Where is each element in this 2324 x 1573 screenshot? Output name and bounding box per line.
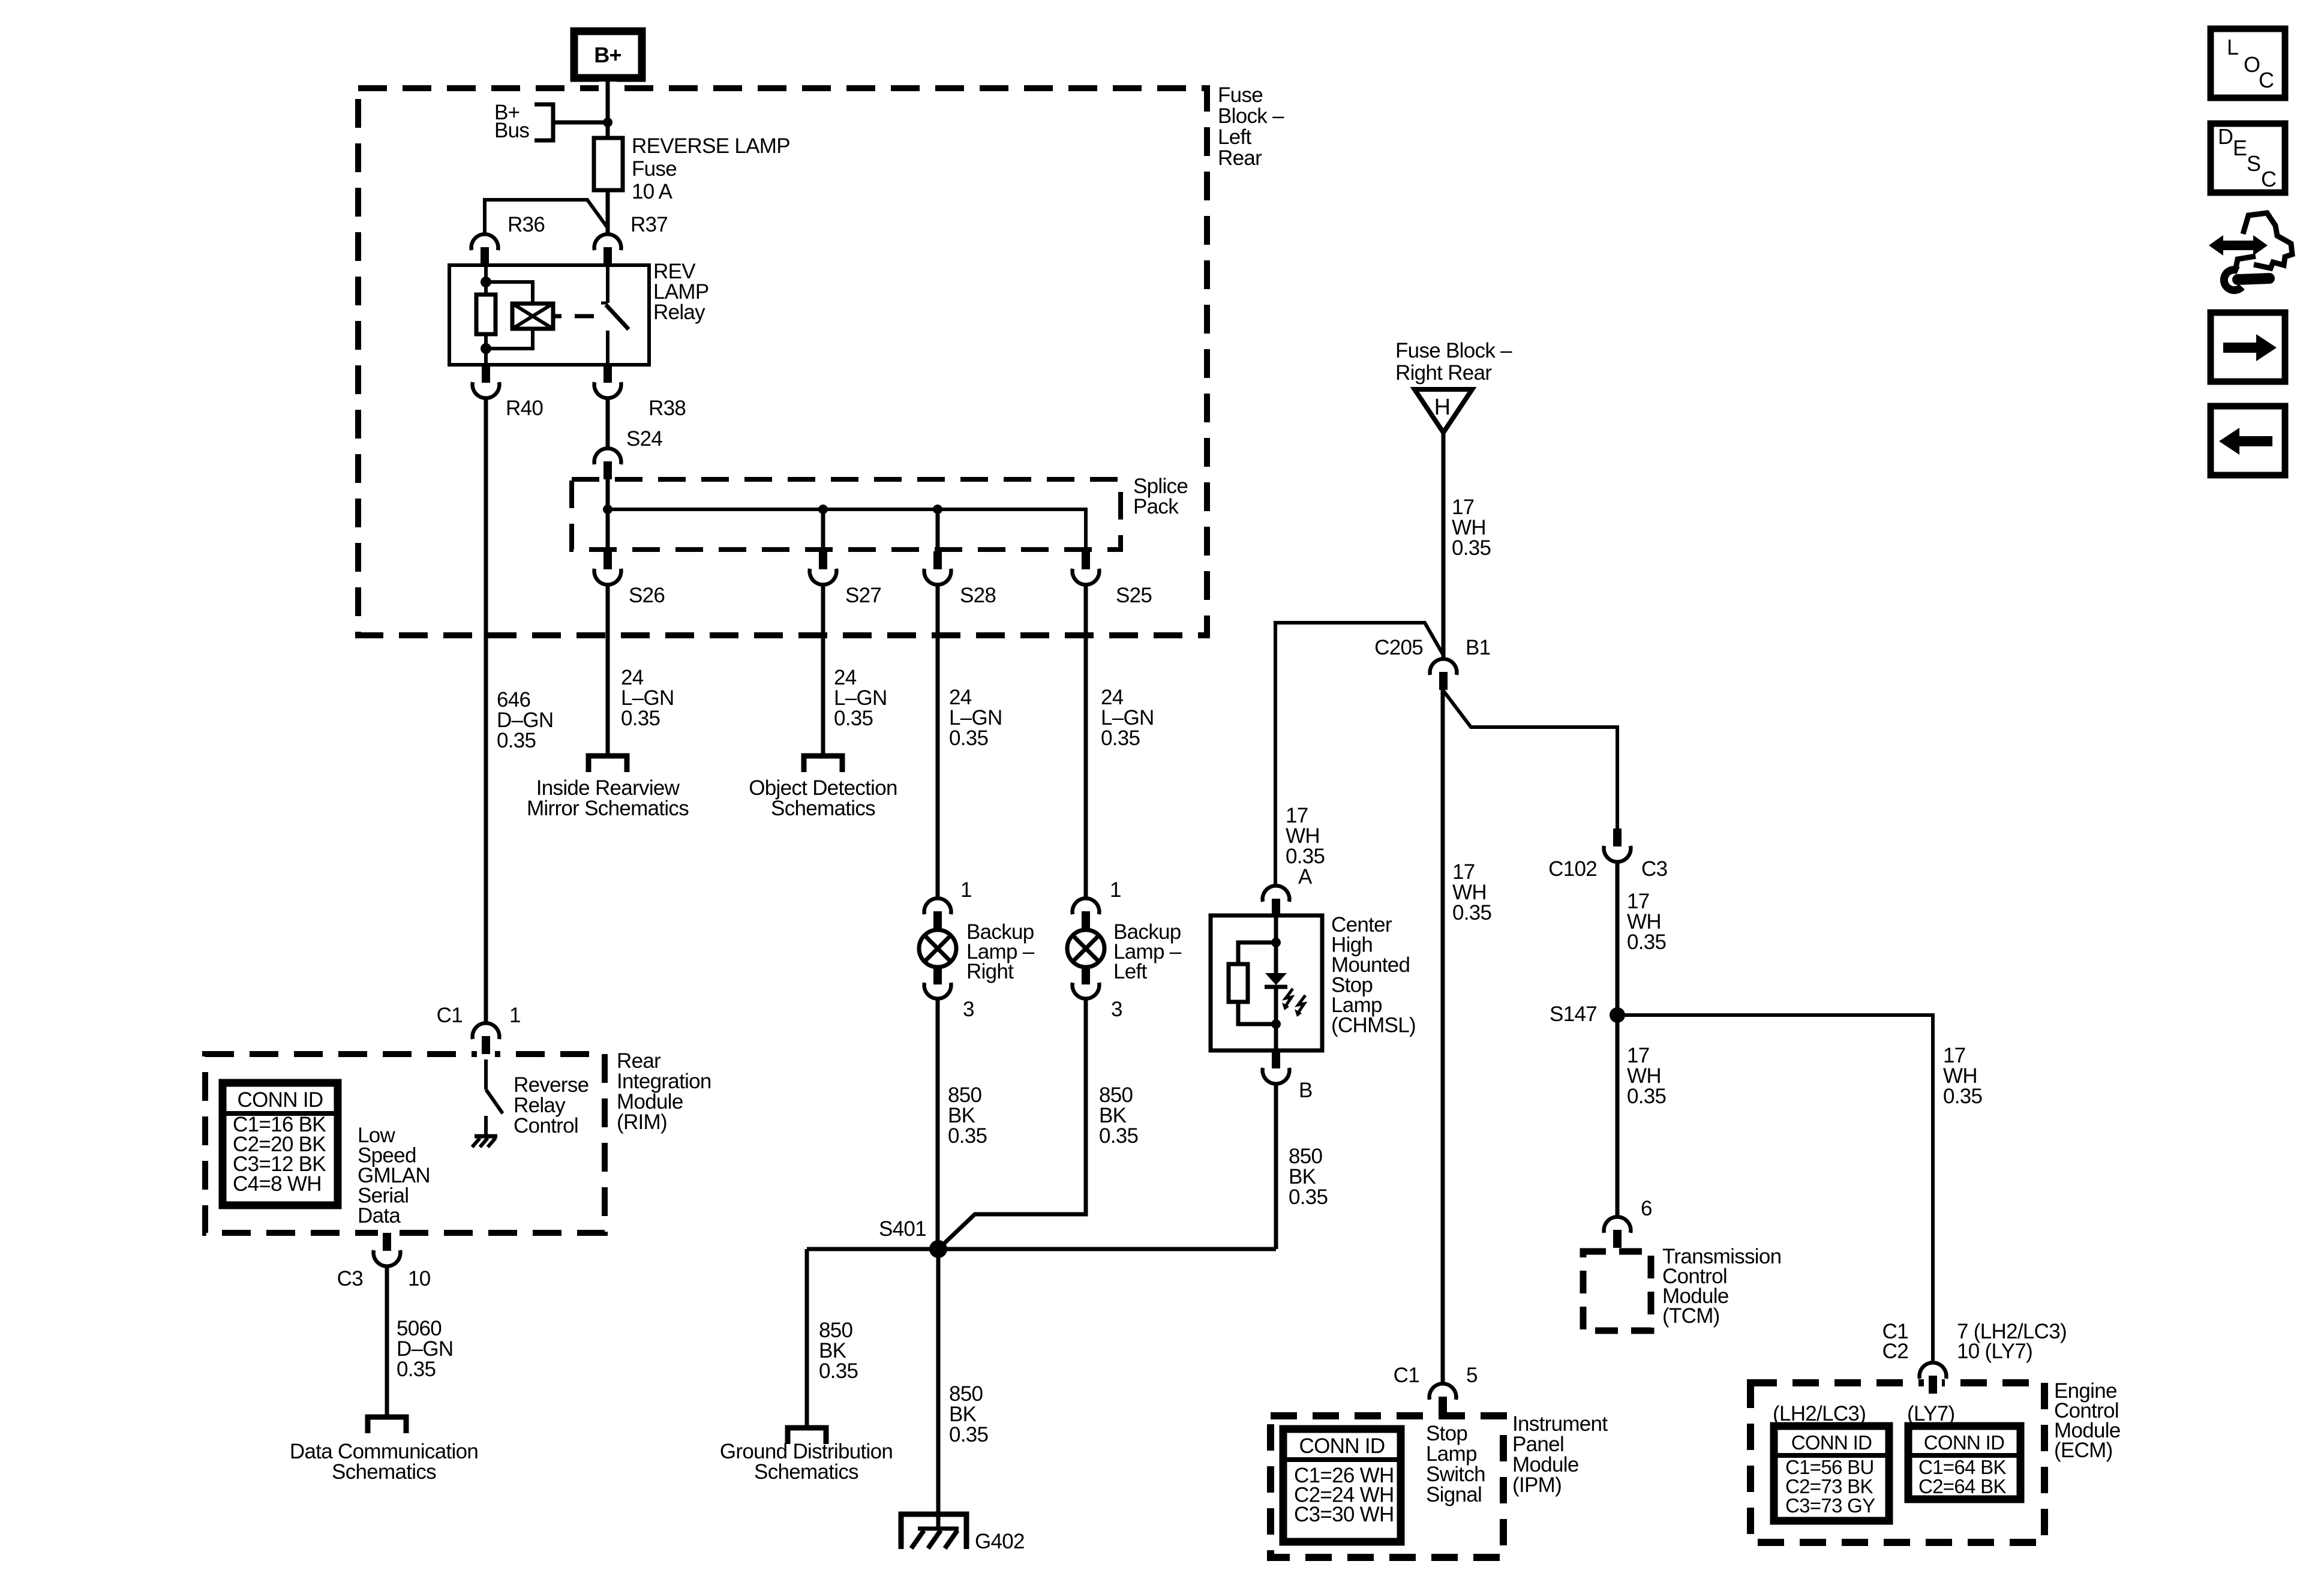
label Transmission Control Module TCM <box>1662 1245 1781 1328</box>
wire S27 to object detection <box>821 585 825 756</box>
wire S147 to ECM <box>1617 1015 1933 1362</box>
junction dot CHMSL top <box>1271 938 1281 947</box>
svg-text:0.35: 0.35 <box>1289 1185 1328 1209</box>
svg-text:3: 3 <box>963 998 974 1021</box>
wire B+ feed <box>606 78 610 139</box>
wire S28 to backup lamp right <box>936 585 940 898</box>
wire C3 to data comm <box>385 1266 389 1417</box>
label pin A <box>1298 865 1313 888</box>
label C3 at C102 <box>1641 857 1667 881</box>
label wire 646 D-GN 0.35 <box>497 688 553 752</box>
label LH2LC3 <box>1773 1402 1866 1425</box>
dashed box RIM <box>205 1047 605 1239</box>
svg-text:(ECM): (ECM) <box>2054 1439 2113 1462</box>
svg-text:5: 5 <box>1466 1364 1478 1387</box>
wire relay pin R36 internal <box>484 265 488 282</box>
label Backup Lamp Right <box>966 920 1035 983</box>
label C1 RIM <box>437 1004 463 1027</box>
label G402 <box>975 1530 1025 1553</box>
dashed box Splice Pack <box>572 479 1121 550</box>
connector S26 <box>594 551 621 585</box>
svg-text:0.35: 0.35 <box>949 1423 988 1446</box>
junction dot S28 bus <box>933 505 942 514</box>
offpage triangle H <box>1415 389 1472 433</box>
svg-text:(IPM): (IPM) <box>1512 1473 1562 1497</box>
label S147 <box>1550 1002 1597 1026</box>
svg-text:10: 10 <box>408 1267 431 1290</box>
svg-text:Fuse: Fuse <box>632 157 677 181</box>
wire splice bus <box>608 509 1086 550</box>
wire C205 left branch <box>1275 623 1443 885</box>
label wire 24 L-GN 0.35 S28 <box>949 686 1002 750</box>
node B+ Bus tap <box>535 104 608 140</box>
label S24 <box>626 427 662 451</box>
svg-text:0.35: 0.35 <box>621 707 660 730</box>
connector TCM pin 6 <box>1604 1217 1631 1248</box>
svg-text:C3: C3 <box>1641 857 1667 881</box>
svg-text:S28: S28 <box>960 584 996 607</box>
label wire 24 L-GN 0.35 S25 <box>1101 686 1154 750</box>
label wire 24 L-GN 0.35 S26 <box>621 666 674 730</box>
lamp Backup Lamp Right <box>919 898 956 998</box>
svg-text:Pack: Pack <box>1133 495 1179 518</box>
label C102 <box>1548 857 1597 881</box>
svg-text:C2: C2 <box>1882 1340 1908 1363</box>
offpage Ground Distribution <box>788 1428 826 1444</box>
svg-text:CONN ID: CONN ID <box>238 1088 323 1112</box>
svg-text:1: 1 <box>509 1004 521 1027</box>
label Object Detection Schematics <box>749 776 897 820</box>
svg-text:S25: S25 <box>1116 584 1152 607</box>
wire backup right to S401 <box>936 999 940 1249</box>
connector RIM C1 pin 1 <box>473 1023 500 1054</box>
icon box DESC <box>2211 124 2285 193</box>
label REV LAMP Relay <box>653 260 709 324</box>
label wire 24 L-GN 0.35 S27 <box>834 666 887 730</box>
label wire 17 WH 0.35 CHMSL drop <box>1286 804 1325 868</box>
svg-text:0.35: 0.35 <box>1627 1085 1666 1108</box>
wire S26 to mirror schematics <box>606 585 610 756</box>
svg-text:O: O <box>2244 52 2260 77</box>
label Reverse Relay Control <box>514 1073 588 1137</box>
diode LED CHMSL <box>1265 942 1287 1024</box>
label R40 <box>506 397 543 420</box>
connector ECM C1 C2 <box>1920 1362 1947 1394</box>
svg-text:Data: Data <box>358 1204 401 1227</box>
label wire 5060 D-GN 0.35 <box>397 1317 453 1381</box>
label S401 <box>879 1217 926 1241</box>
svg-text:10 (LY7): 10 (LY7) <box>1957 1340 2032 1363</box>
wire S401 to G402 <box>936 1249 941 1529</box>
svg-text:1: 1 <box>960 878 972 902</box>
svg-text:Rear: Rear <box>1218 146 1262 170</box>
junction S147 <box>1610 1007 1625 1023</box>
svg-text:S147: S147 <box>1550 1002 1597 1026</box>
svg-text:(LY7): (LY7) <box>1907 1402 1955 1425</box>
wire CHMSL resistor branch top <box>1238 942 1276 964</box>
label C3 RIM <box>337 1267 363 1290</box>
svg-text:Control: Control <box>514 1114 578 1137</box>
svg-text:A: A <box>1298 865 1313 888</box>
junction dot relay coil top <box>481 277 491 287</box>
label Fuse Block - Left Rear <box>1218 83 1284 170</box>
label wire 850 BK 0.35 CHMSL <box>1289 1145 1328 1209</box>
ground G402 <box>901 1514 966 1549</box>
label pin 3 left <box>1111 998 1122 1021</box>
offpage Inside Rearview Mirror <box>588 756 627 772</box>
wire C205 to IPM <box>1441 690 1445 1383</box>
svg-text:Signal: Signal <box>1426 1483 1482 1506</box>
svg-text:10 A: 10 A <box>632 180 673 203</box>
svg-text:S24: S24 <box>626 427 662 451</box>
label wire 17 WH 0.35 H <box>1452 496 1491 560</box>
svg-text:0.35: 0.35 <box>1452 901 1491 924</box>
connector C102 C3 <box>1604 828 1631 862</box>
connector C205 B1 <box>1430 659 1457 690</box>
table CONN ID IPM <box>1283 1429 1401 1542</box>
label pin B <box>1299 1079 1313 1102</box>
svg-text:S401: S401 <box>879 1217 926 1241</box>
wire S27 drop <box>821 509 825 550</box>
label B+ Bus <box>494 101 529 142</box>
svg-text:E: E <box>2233 136 2247 160</box>
svg-text:Left: Left <box>1113 960 1148 983</box>
svg-text:0.35: 0.35 <box>834 707 873 730</box>
icon box arrow left <box>2211 406 2285 475</box>
connector IPM C1 pin 5 <box>1430 1383 1457 1415</box>
wire S147 to TCM <box>1616 1015 1620 1216</box>
label C1 IPM <box>1394 1364 1419 1387</box>
wire CHMSL B to S401 <box>1274 1084 1278 1249</box>
label Data Communication Schematics <box>290 1440 478 1484</box>
dashed box TCM <box>1583 1251 1651 1331</box>
table CONN ID ECM LY7 <box>1908 1426 2020 1499</box>
svg-text:D: D <box>2218 124 2233 149</box>
svg-text:C102: C102 <box>1548 857 1597 881</box>
svg-text:B1: B1 <box>1466 636 1490 659</box>
svg-text:0.35: 0.35 <box>1452 536 1491 560</box>
svg-text:Block –: Block – <box>1218 104 1284 128</box>
label R36 <box>508 213 545 236</box>
wire relay coil branch bottom <box>486 329 533 349</box>
label R38 <box>648 397 686 420</box>
connector R38 <box>594 365 621 398</box>
label wire 17 WH 0.35 IPM drop <box>1452 860 1491 924</box>
dashed box ECM <box>1750 1376 2044 1542</box>
svg-text:Fuse Block –: Fuse Block – <box>1395 339 1512 362</box>
label Rear Integration Module RIM <box>617 1049 711 1134</box>
connector CHMSL B <box>1263 1050 1290 1084</box>
svg-text:R38: R38 <box>648 397 686 420</box>
svg-text:C1: C1 <box>437 1004 463 1027</box>
svg-text:R40: R40 <box>506 397 543 420</box>
label pin 1 RIM <box>509 1004 521 1027</box>
label Instrument Panel Module IPM <box>1512 1412 1608 1497</box>
wire S401 horizontal <box>807 1247 1276 1251</box>
svg-text:CONN ID: CONN ID <box>1791 1431 1872 1454</box>
icon box arrow right <box>2211 313 2285 382</box>
label pin 5 IPM <box>1466 1364 1478 1387</box>
svg-text:R36: R36 <box>508 213 545 236</box>
connector S27 <box>810 551 837 585</box>
svg-text:S26: S26 <box>629 584 665 607</box>
label Backup Lamp Left <box>1113 920 1182 983</box>
resistor CHMSL <box>1229 964 1248 1002</box>
svg-text:H: H <box>1434 395 1451 420</box>
svg-text:B: B <box>1299 1079 1313 1102</box>
svg-text:C3: C3 <box>337 1267 363 1290</box>
offpage Data Communication <box>368 1417 406 1433</box>
label S27 <box>845 584 881 607</box>
svg-text:0.35: 0.35 <box>949 727 988 750</box>
wire relay coil to switch dashed <box>553 314 594 319</box>
junction dot CHMSL bottom <box>1271 1019 1281 1029</box>
power symbol B+ <box>574 31 642 78</box>
svg-text:0.35: 0.35 <box>819 1359 858 1383</box>
svg-text:0.35: 0.35 <box>497 729 536 752</box>
label pin 1 left <box>1110 878 1121 902</box>
label wire 17 WH 0.35 TCM drop <box>1627 1044 1666 1108</box>
label R37 <box>630 213 668 236</box>
junction dot S27 bus <box>818 505 828 514</box>
svg-text:Left: Left <box>1218 125 1252 149</box>
LED emission arrows <box>1282 989 1305 1017</box>
wire S26 drop <box>606 509 610 550</box>
label pin 1 right <box>960 878 972 902</box>
svg-text:6: 6 <box>1641 1197 1652 1220</box>
svg-text:R37: R37 <box>630 213 668 236</box>
label wire 850 BK 0.35 right <box>948 1083 987 1148</box>
svg-text:C1: C1 <box>1394 1364 1419 1387</box>
wire backup left to S401 jog <box>938 999 1086 1249</box>
label S26 <box>629 584 665 607</box>
connector CHMSL A <box>1263 885 1290 917</box>
dashed box IPM <box>1271 1416 1503 1557</box>
label Ground Distribution Schematics <box>720 1440 893 1484</box>
resistor relay internal <box>476 282 496 349</box>
label Stop Lamp Switch Signal <box>1426 1422 1485 1506</box>
wire fuse to R37 <box>606 190 610 233</box>
svg-text:0.35: 0.35 <box>1101 727 1140 750</box>
svg-text:Right Rear: Right Rear <box>1395 361 1492 385</box>
wire C205 jog to C102 <box>1443 690 1617 828</box>
label pin 6 TCM <box>1641 1197 1652 1220</box>
label Engine Control Module ECM <box>2054 1379 2121 1462</box>
switch Reverse Relay Control <box>486 1059 503 1113</box>
junction dot B+ bus <box>603 118 612 127</box>
svg-text:(CHMSL): (CHMSL) <box>1331 1014 1416 1037</box>
switch relay blade <box>606 305 629 329</box>
svg-text:C3=30 WH: C3=30 WH <box>1294 1503 1394 1526</box>
svg-text:L: L <box>2227 35 2238 59</box>
label wire 17 WH 0.35 below C102 <box>1627 890 1666 954</box>
svg-text:0.35: 0.35 <box>1943 1085 1982 1108</box>
label S25 <box>1116 584 1152 607</box>
junction dot relay coil bottom <box>481 343 491 354</box>
table CONN ID ECM LH2LC3 <box>1774 1426 1889 1521</box>
svg-text:Schematics: Schematics <box>754 1460 858 1484</box>
svg-text:G402: G402 <box>975 1530 1025 1553</box>
wire S24 to bus <box>606 479 610 509</box>
wire CHMSL resistor branch bottom <box>1238 1002 1276 1024</box>
svg-text:3: 3 <box>1111 998 1122 1021</box>
svg-text:CONN ID: CONN ID <box>1299 1434 1385 1458</box>
svg-text:0.35: 0.35 <box>1627 930 1666 954</box>
wire S28 drop <box>936 509 940 550</box>
svg-text:S27: S27 <box>845 584 881 607</box>
label C1 C2 ECM <box>1882 1320 1908 1363</box>
lamp Backup Lamp Left <box>1067 898 1104 998</box>
label B1 <box>1466 636 1490 659</box>
svg-text:CONN ID: CONN ID <box>1924 1431 2004 1454</box>
svg-text:(RIM): (RIM) <box>617 1110 667 1134</box>
svg-text:S: S <box>2247 151 2260 176</box>
ground RIM internal <box>472 1116 497 1147</box>
label pin 10 RIM <box>408 1267 431 1290</box>
wire R40 to RIM C1 <box>484 398 488 1022</box>
label Inside Rearview Mirror Schematics <box>527 776 689 820</box>
label Center High Mounted Stop Lamp CHMSL <box>1331 913 1416 1037</box>
wire R36 branch <box>485 200 608 233</box>
connector R37 <box>594 234 621 265</box>
wire S25 to backup lamp left <box>1084 585 1088 898</box>
label Splice Pack <box>1133 475 1188 518</box>
svg-text:Bus: Bus <box>494 119 529 142</box>
label REVERSE LAMP Fuse 10 A <box>632 134 790 203</box>
label Low Speed GMLAN Serial Data <box>358 1124 430 1227</box>
wire H to C205 <box>1442 432 1446 658</box>
relay REV LAMP Relay box <box>449 265 649 365</box>
svg-text:C: C <box>2259 68 2274 92</box>
connector RIM C3 pin 10 <box>374 1233 401 1266</box>
svg-text:Fuse: Fuse <box>1218 83 1263 107</box>
label LY7 <box>1907 1402 1955 1425</box>
wire CHMSL out <box>1274 1024 1278 1050</box>
offpage Object Detection <box>804 756 842 772</box>
connector S24 <box>594 448 621 479</box>
wire S401 to ground distribution <box>805 1249 809 1428</box>
label S28 <box>960 584 996 607</box>
dashed box Fuse Block - Left Rear <box>358 82 1207 635</box>
svg-text:REVERSE LAMP: REVERSE LAMP <box>632 134 790 158</box>
wire R38 to S24 <box>606 398 610 448</box>
wire CHMSL in <box>1274 917 1278 942</box>
junction S401 <box>929 1240 947 1258</box>
label pin 3 right <box>963 998 974 1021</box>
fuse REVERSE LAMP 10A <box>594 138 623 190</box>
connector R40 <box>473 365 500 398</box>
label wire 850 BK 0.35 left <box>1099 1083 1138 1148</box>
svg-text:0.35: 0.35 <box>1099 1124 1138 1148</box>
svg-text:(TCM): (TCM) <box>1662 1304 1720 1328</box>
svg-text:Mirror Schematics: Mirror Schematics <box>527 797 689 820</box>
svg-text:B+: B+ <box>594 43 621 67</box>
svg-text:Relay: Relay <box>653 301 705 324</box>
junction dot S26 bus <box>603 505 612 514</box>
svg-text:(LH2/LC3): (LH2/LC3) <box>1773 1402 1866 1425</box>
wire relay bottom left <box>484 349 488 365</box>
svg-text:1: 1 <box>1110 878 1121 902</box>
wire C102 to S147 <box>1616 862 1620 1015</box>
svg-text:C3=73 GY: C3=73 GY <box>1785 1494 1875 1517</box>
svg-text:Schematics: Schematics <box>771 797 875 820</box>
relay coil <box>512 304 553 329</box>
switch relay contact upper <box>601 265 608 303</box>
svg-text:0.35: 0.35 <box>397 1358 436 1381</box>
label wire 17 WH 0.35 ECM drop <box>1943 1044 1982 1108</box>
svg-text:Schematics: Schematics <box>332 1460 436 1484</box>
svg-text:C2=64 BK: C2=64 BK <box>1918 1475 2006 1497</box>
svg-text:C: C <box>2261 167 2276 191</box>
connector S28 <box>924 551 951 585</box>
svg-text:C205: C205 <box>1374 636 1423 659</box>
svg-text:Right: Right <box>966 960 1014 983</box>
wire relay coil branch top <box>486 282 533 304</box>
label pin 7 10 ECM <box>1957 1320 2067 1363</box>
icon box LOC <box>2211 29 2285 98</box>
connector R36 <box>472 234 499 265</box>
label wire 850 BK 0.35 grounddist <box>819 1319 858 1383</box>
label Fuse Block - Right Rear <box>1395 339 1512 385</box>
svg-text:C4=8 WH: C4=8 WH <box>233 1172 322 1196</box>
svg-text:0.35: 0.35 <box>948 1124 987 1148</box>
box CHMSL <box>1211 915 1322 1050</box>
connector S25 <box>1073 551 1100 585</box>
switch relay contact lower <box>606 331 609 365</box>
table CONN ID RIM <box>223 1083 338 1205</box>
label C205 <box>1374 636 1423 659</box>
label wire 850 BK 0.35 G402 <box>949 1382 988 1446</box>
icon vehicle wrench <box>2209 213 2292 290</box>
